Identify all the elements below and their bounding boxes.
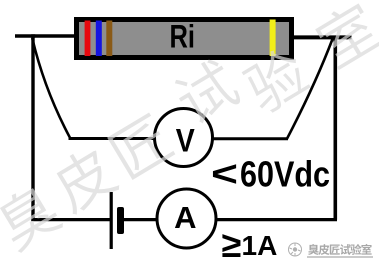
logo icon bottom-right xyxy=(289,243,302,256)
svg-text:1A: 1A xyxy=(242,230,278,261)
wire diagonal junction to voltmeter xyxy=(32,38,70,138)
resistor Ri body fill xyxy=(79,22,289,55)
node junction J1 xyxy=(31,34,35,37)
logo text 臭皮匠试验室 small xyxy=(308,244,372,255)
resistor Ri band 1 red xyxy=(85,21,91,57)
wire right vertical xyxy=(333,37,337,220)
ammeter A circle xyxy=(157,189,216,248)
wire voltmeter right lead xyxy=(213,137,289,140)
svg-text:60Vdc: 60Vdc xyxy=(240,154,330,195)
wire voltmeter left lead xyxy=(69,137,155,140)
wire top-left lead xyxy=(15,34,76,38)
voltmeter U1 circle xyxy=(155,109,213,167)
svg-text:V: V xyxy=(176,122,196,158)
resistor Ri body outer border xyxy=(74,17,294,60)
resistor Ri band 3 brown xyxy=(106,21,112,57)
wire bottom-right horizontal xyxy=(216,218,337,221)
battery BT1 positive plate thick short xyxy=(117,207,124,234)
wire diagonal voltmeter to top-right junction xyxy=(287,39,333,139)
resistor Ri band 2 blue xyxy=(96,21,102,57)
svg-text:A: A xyxy=(174,200,196,235)
resistor Ri band 4 yellow xyxy=(270,20,276,57)
battery BT1 negative plate thin long xyxy=(110,192,113,249)
logo underline xyxy=(307,256,373,257)
wire ammeter left lead to battery xyxy=(124,218,157,221)
svg-text:<: < xyxy=(211,153,238,194)
svg-text:≥: ≥ xyxy=(222,224,242,265)
wire left vertical xyxy=(31,35,34,221)
wire top-right lead xyxy=(294,35,352,39)
wire bottom-left horizontal xyxy=(31,218,110,221)
node junction J2 xyxy=(331,36,335,39)
svg-text:Ri: Ri xyxy=(170,19,196,55)
